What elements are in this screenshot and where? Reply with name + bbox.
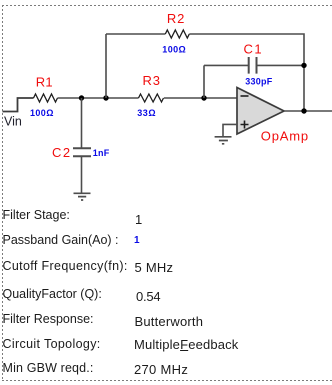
- table row Min GBW value: [134, 362, 188, 378]
- table row Cutoff Frequency value: [135, 260, 174, 276]
- table row Circuit Topology value: [134, 337, 238, 353]
- resistor R1: [34, 94, 58, 102]
- wire C1 right: [257, 64, 305, 66]
- table row QualityFactor label: [3, 287, 102, 302]
- wire C2 branch lower: [81, 156, 83, 193]
- border top dashed: [2, 5, 332, 7]
- wire non-inverting input to ground: [223, 124, 237, 136]
- ground below C2: [74, 193, 91, 200]
- svg-text:330pF: 330pF: [245, 76, 273, 86]
- table row Filter Stage label: [3, 208, 70, 223]
- resistor R3: [139, 94, 164, 102]
- svg-text:R3: R3: [143, 73, 161, 88]
- svg-text:Vin: Vin: [4, 114, 22, 128]
- wire R2 top left: [106, 33, 165, 35]
- table row Min GBW label: [3, 361, 94, 376]
- table row Filter Response value: [135, 314, 204, 330]
- svg-text:C2: C2: [52, 145, 72, 160]
- capacitor C1: [249, 57, 257, 74]
- wire R3 to op-amp inverting input: [164, 97, 237, 99]
- wire C2 branch upper: [81, 98, 83, 148]
- svg-text:100Ω: 100Ω: [162, 45, 186, 55]
- capacitor C2: [73, 148, 91, 156]
- border bottom dashed: [2, 380, 332, 382]
- wire C1 left: [204, 64, 249, 66]
- node junction C1 tap: [201, 95, 206, 100]
- wire C1 branch vertical: [203, 65, 205, 98]
- svg-text:R2: R2: [167, 11, 185, 26]
- op-amp inverting pin mark: [241, 95, 249, 97]
- wire R2 branch vertical left: [105, 34, 107, 98]
- svg-text:1nF: 1nF: [93, 148, 110, 158]
- svg-text:R1: R1: [36, 75, 53, 90]
- svg-text:33Ω: 33Ω: [137, 108, 156, 118]
- table row Circuit Topology label: [3, 337, 101, 352]
- table row Filter Stage value: [135, 212, 142, 228]
- table row Cutoff Frequency label: [3, 259, 128, 274]
- table row Filter Response label: [3, 312, 94, 327]
- wire Vin input stub: [3, 98, 34, 112]
- wire R1 to R3: [58, 97, 139, 99]
- wire output: [284, 110, 332, 112]
- border left dashed: [2, 5, 4, 381]
- op-amp non-inverting pin mark: [241, 121, 249, 129]
- wire R2 top right: [189, 34, 304, 111]
- resistor R2: [165, 30, 189, 38]
- svg-text:C1: C1: [244, 42, 264, 57]
- svg-text:100Ω: 100Ω: [30, 108, 54, 118]
- svg-text:OpAmp: OpAmp: [261, 128, 309, 143]
- table row Passband Gain label: [3, 233, 119, 248]
- ground at op-amp non-inverting input: [215, 137, 232, 144]
- node junction output: [301, 108, 306, 113]
- node junction R2 tap: [103, 95, 108, 100]
- op-amp U1: [237, 88, 284, 135]
- node junction C2 tap: [79, 95, 84, 100]
- table row Passband Gain value: [134, 233, 140, 249]
- node junction feedback: [301, 63, 306, 68]
- table row QualityFactor value: [136, 289, 160, 305]
